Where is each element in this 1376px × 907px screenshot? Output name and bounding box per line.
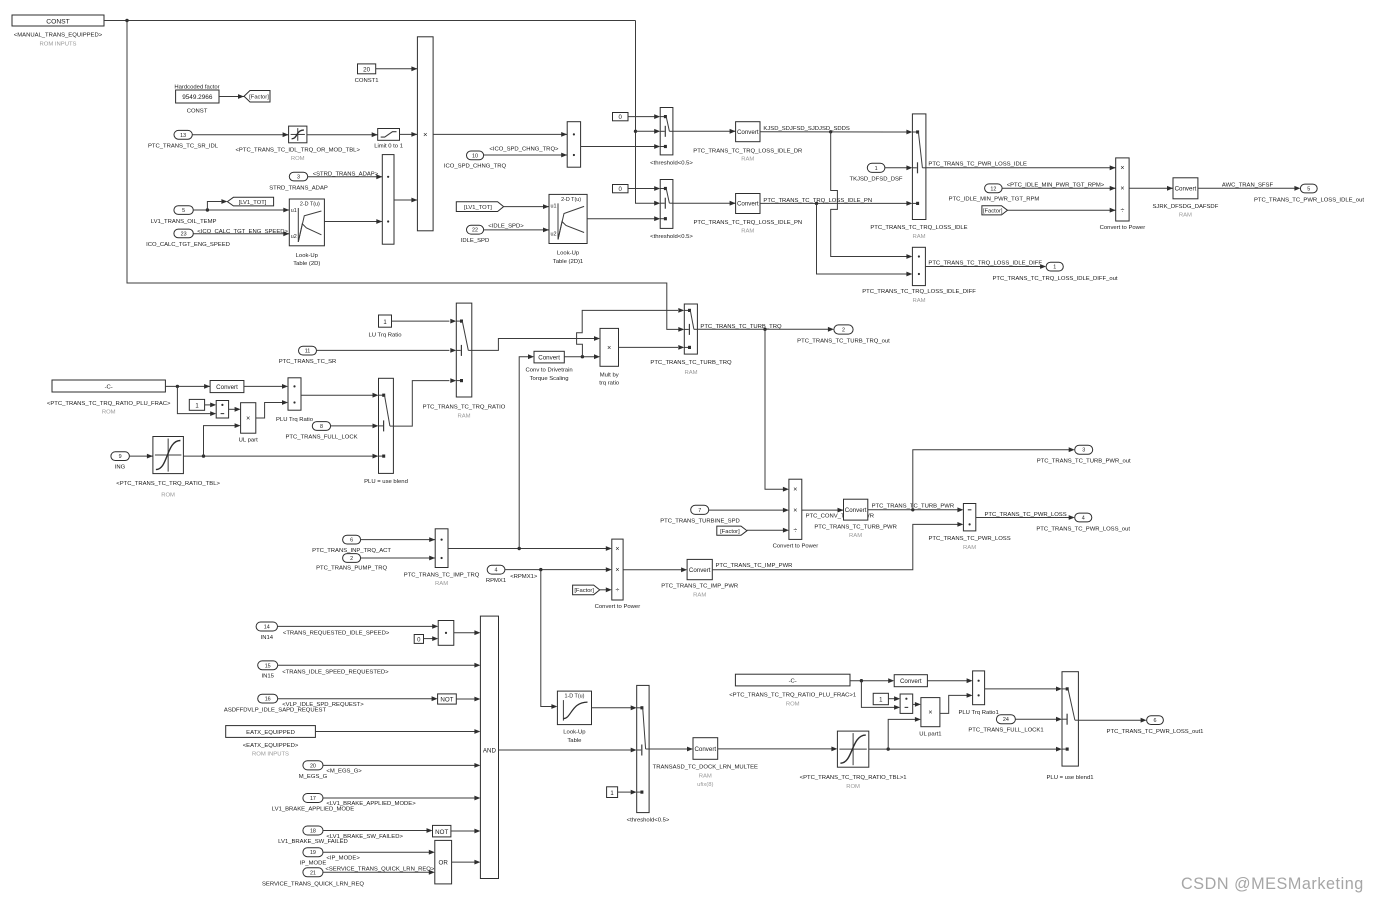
wire ratio table1 to use blend1 switch xyxy=(869,747,1062,752)
svg-text:EATX_EQUIPPED: EATX_EQUIPPED xyxy=(246,730,295,736)
inport 16 ASDFFDVLP_IDLE_SAPD_REQUEST xyxy=(224,694,327,713)
switch block threshold 0.5 (PN) xyxy=(650,180,693,240)
wire const0 to sum xyxy=(424,636,439,641)
outport 3 PTC_TRANS_TC_TURB_PWR_out xyxy=(1037,445,1131,464)
wire label PTC_TRANS_TC_PWR_LOSS xyxy=(985,512,1067,518)
svg-text:UL part1: UL part1 xyxy=(919,731,941,737)
svg-text:PTC_TRANS_TC_IMP_TRQ: PTC_TRANS_TC_IMP_TRQ xyxy=(404,572,480,578)
wire label M_EGS_G xyxy=(326,769,362,775)
svg-text:22: 22 xyxy=(472,228,478,234)
svg-text:<TRANS_IDLE_SPEED_REQUESTED>: <TRANS_IDLE_SPEED_REQUESTED> xyxy=(282,669,389,675)
svg-text:PTC_TRANS_TC_PWR_LOSS_out: PTC_TRANS_TC_PWR_LOSS_out xyxy=(1036,527,1130,533)
svg-text:2: 2 xyxy=(842,328,845,334)
inport 18 LV1_BRAKE_SW_FAILED xyxy=(278,826,348,845)
svg-text:CONST1: CONST1 xyxy=(355,78,379,84)
wire port17 to AND xyxy=(323,796,480,801)
svg-text:3: 3 xyxy=(297,175,300,181)
svg-text:PTC_TRANS_TC_SR_IDL: PTC_TRANS_TC_SR_IDL xyxy=(148,143,219,149)
inport 2 PTC_TRANS_PUMP_TRQ xyxy=(316,554,387,572)
svg-text:21: 21 xyxy=(310,870,316,876)
svg-text:2: 2 xyxy=(350,556,353,562)
lookup block PTC_TRANS_TC_TRQ_RATIO_TBL 1 (ROM) xyxy=(800,731,907,790)
svg-text:RAM: RAM xyxy=(435,581,448,587)
wire label LV1_BRAKE_SW_FAILED xyxy=(326,834,403,840)
svg-text:9549.2966: 9549.2966 xyxy=(182,94,213,101)
wire Factor to Convert-to-Power turb xyxy=(747,528,789,533)
from tag LV1_TOT xyxy=(456,202,503,212)
svg-text:RPMX1: RPMX1 xyxy=(486,578,506,584)
wire NOT brake to AND xyxy=(451,829,481,834)
wire label PTC_IDLE_MIN_PWR_TGT_RPM xyxy=(1007,182,1105,188)
wire PLU Trq Ratio to use blend switch xyxy=(301,393,379,398)
wire port12 to Convert-to-Power xyxy=(1002,186,1116,191)
svg-text:ASDFFDVLP_IDLE_SAPD_REQUEST: ASDFFDVLP_IDLE_SAPD_REQUEST xyxy=(224,707,327,713)
wire Factor to Convert-to-Power xyxy=(1008,208,1116,213)
svg-text:SJRK_DFSDG_DAFSDF: SJRK_DFSDG_DAFSDF xyxy=(1153,204,1219,210)
svg-text:PTC_TRANS_TC_TURB_TRQ: PTC_TRANS_TC_TURB_TRQ xyxy=(650,360,732,366)
svg-text:1: 1 xyxy=(1053,265,1056,271)
svg-text:3: 3 xyxy=(1082,448,1085,454)
wire Convert TURB_PWR to PWR_LOSS sum xyxy=(868,507,964,512)
svg-text:1-D T(u): 1-D T(u) xyxy=(564,694,584,700)
constant block 1 (one-minus 1) xyxy=(873,693,888,704)
outport 1 PTC_TRANS_TC_TRQ_LOSS_IDLE_DIFF_out xyxy=(992,262,1117,282)
svg-text:Table (2D)1: Table (2D)1 xyxy=(553,259,583,265)
logic block NOT (brake) xyxy=(433,825,451,837)
inport 21 SERVICE_TRANS_QUICK_LRN_REQ xyxy=(262,868,364,888)
wire 2D lookup1 to switch2 xyxy=(587,216,660,221)
svg-text:PTC_TRANS_TC_TRQ_LOSS_IDLE_DR: PTC_TRANS_TC_TRQ_LOSS_IDLE_DR xyxy=(693,148,802,154)
convert block (PLU frac) xyxy=(210,381,244,393)
switch block PTC_TRANS_TC_TRQ_LOSS_IDLE (RAM) xyxy=(870,114,967,240)
inport 17 LV1_BRAKE_APPLIED_MODE xyxy=(272,794,354,813)
svg-text:PTC_TRANS_INP_TRQ_ACT: PTC_TRANS_INP_TRQ_ACT xyxy=(312,548,391,554)
wire branch up to TURB_TRQ switch (with hop) xyxy=(577,308,685,357)
wire RPMX1 branch down to 1D lookup xyxy=(541,570,558,709)
svg-text:÷: ÷ xyxy=(793,528,797,535)
wire port24 to use blend1 switch xyxy=(1015,717,1062,722)
wire branch up to Conv to Drivetrain xyxy=(519,354,534,548)
svg-text:RAM: RAM xyxy=(912,298,925,304)
switch block PTC_TRANS_TC_TURB_TRQ (RAM) xyxy=(650,304,732,376)
svg-text:LV1_BRAKE_APPLIED_MODE: LV1_BRAKE_APPLIED_MODE xyxy=(272,807,354,813)
svg-text:PTC_TRANS_TC_TRQ_LOSS_IDLE_PN: PTC_TRANS_TC_TRQ_LOSS_IDLE_PN xyxy=(693,220,802,226)
inport 20 M_EGS_G xyxy=(299,761,328,780)
switch block PLU = use blend xyxy=(364,378,408,485)
inport 3 STRD_TRANS_ADAP xyxy=(269,172,328,191)
svg-text:PLU Trq Ratio: PLU Trq Ratio xyxy=(276,417,314,423)
svg-text:12: 12 xyxy=(990,186,996,192)
sum block PLU Trq Ratio xyxy=(276,378,314,423)
svg-text:TKJSD_DFSD_DSF: TKJSD_DFSD_DSF xyxy=(849,176,902,182)
svg-text:Convert to Power: Convert to Power xyxy=(595,604,641,610)
product block Convert to Power (imp) xyxy=(595,539,641,610)
product block Convert to Power (turb) xyxy=(773,479,819,549)
wire port1 to big switch xyxy=(885,165,913,170)
svg-text:[Factor]: [Factor] xyxy=(720,529,740,535)
svg-text:RAM: RAM xyxy=(699,773,712,779)
svg-text:ICO_SPD_CHNG_TRQ: ICO_SPD_CHNG_TRQ xyxy=(444,163,507,169)
svg-text:23: 23 xyxy=(181,231,187,237)
convert block Conv to Drivetrain Torque Scaling xyxy=(526,351,573,382)
wire PLU Trq Ratio1 to use blend1 switch xyxy=(985,687,1062,692)
svg-text:[LV1_TOT]: [LV1_TOT] xyxy=(464,205,492,211)
wire label PTC_TRANS_TC_TRQ_LOSS_IDLE_DIFF xyxy=(928,260,1042,266)
sum block PTC_TRANS_TC_IMP_TRQ (RAM) xyxy=(404,529,480,587)
wire Convert1 to PLU Trq Ratio1 xyxy=(927,678,972,683)
label Hardcoded factor xyxy=(174,85,219,91)
wire port5 to 2D lookup u1 xyxy=(193,208,289,213)
goto tag Factor xyxy=(244,91,270,103)
outport 2 PTC_TRANS_TC_TURB_TRQ_out xyxy=(797,325,890,345)
wire -C- branch down to one-minus sum xyxy=(177,386,216,416)
svg-text:6: 6 xyxy=(350,538,353,544)
wire port14 to sum xyxy=(278,624,439,629)
wire TRQ_RATIO switch to mult xyxy=(472,336,600,350)
svg-text:<SERVICE_TRANS_QUICK_LRN_REQ>: <SERVICE_TRANS_QUICK_LRN_REQ> xyxy=(325,866,434,872)
svg-text:IDLE_SPD: IDLE_SPD xyxy=(461,238,489,244)
wire port22 to 2D lookup1 u2 xyxy=(484,228,549,233)
svg-text:<RPMX1>: <RPMX1> xyxy=(510,574,538,580)
wire TRANSASD to ratio table1 xyxy=(718,747,838,752)
wire TURB_TRQ to outport 2 xyxy=(697,327,834,332)
wire sum to product xyxy=(394,198,417,203)
wire Limit to product xyxy=(400,132,418,137)
wire port3 to sum xyxy=(308,174,383,179)
svg-text:-C-: -C- xyxy=(789,679,797,685)
wire branch up to outport 3 xyxy=(913,447,1075,510)
wire -C-1 to Convert1 xyxy=(850,678,894,683)
switch block threshold 0.5 (DR) xyxy=(650,108,693,167)
wire port13 to ROM table xyxy=(192,132,288,137)
svg-text:IN15: IN15 xyxy=(261,674,274,680)
wire const1 to one-minus sum xyxy=(205,403,217,408)
svg-text:PTC_TRANS_FULL_LOCK: PTC_TRANS_FULL_LOCK xyxy=(285,434,357,440)
svg-text:×: × xyxy=(615,567,619,574)
wire Convert-to-Power imp to Convert RAM xyxy=(623,567,687,572)
svg-text:IN14: IN14 xyxy=(261,635,274,641)
wire port4 to Convert-to-Power (imp) xyxy=(505,567,612,572)
svg-text:ROM: ROM xyxy=(291,156,305,162)
from tag Factor (turb) xyxy=(717,526,747,535)
svg-text:PTC_TRANS_TC_TRQ_LOSS_IDLE_DIF: PTC_TRANS_TC_TRQ_LOSS_IDLE_DIFF xyxy=(928,260,1042,266)
wire switch2 to Convert PN xyxy=(673,201,736,206)
wire threshold switch to TRANSASD convert xyxy=(649,747,693,752)
svg-text:ROM: ROM xyxy=(161,493,175,499)
wire CONST branch down left side to TURB_TRQ switch control xyxy=(127,21,684,332)
svg-text:<VLP_IDLE_SPD_REQUEST>: <VLP_IDLE_SPD_REQUEST> xyxy=(282,702,364,708)
wire label STRD_TRANS_ADAP xyxy=(313,171,379,177)
outport 5 PTC_TRANS_TC_PWR_LOSS_IDLE_out xyxy=(1254,184,1364,204)
wire label PTC_TRANS_TC_TURB_PWR xyxy=(872,503,954,509)
wire port19 to OR xyxy=(323,850,435,855)
svg-text:PLU Trq Ratio1: PLU Trq Ratio1 xyxy=(958,710,998,716)
svg-text:<MANUAL_TRANS_EQUIPPED>: <MANUAL_TRANS_EQUIPPED> xyxy=(14,33,103,39)
wire ratio table to PLU use blend switch xyxy=(183,454,378,459)
inport 10 ICO_SPD_CHNG_TRQ xyxy=(444,151,507,169)
svg-text:24: 24 xyxy=(1003,717,1009,723)
svg-text:PTC_TRANS_TC_TRQ_LOSS_IDLE_DIF: PTC_TRANS_TC_TRQ_LOSS_IDLE_DIFF xyxy=(862,289,976,295)
svg-text:6: 6 xyxy=(1154,718,1157,724)
svg-text:PTC_TRANS_FULL_LOCK1: PTC_TRANS_FULL_LOCK1 xyxy=(968,728,1043,734)
goto tag LV1_TOT xyxy=(227,197,273,206)
wire CONST output across top xyxy=(104,19,636,22)
svg-text:SERVICE_TRANS_QUICK_LRN_REQ: SERVICE_TRANS_QUICK_LRN_REQ xyxy=(262,881,364,887)
svg-text:2-D T(u): 2-D T(u) xyxy=(561,197,581,203)
svg-text:13: 13 xyxy=(180,133,186,139)
inport 19 IP_MODE xyxy=(300,848,327,867)
svg-text:14: 14 xyxy=(264,625,270,631)
svg-text:PTC_TRANS_TC_TURB_PWR_out: PTC_TRANS_TC_TURB_PWR_out xyxy=(1037,459,1131,465)
wire branch up to UL part xyxy=(204,423,241,456)
svg-text:4: 4 xyxy=(1082,516,1085,522)
svg-text:Table (2D): Table (2D) xyxy=(293,261,320,267)
wire PN branch down to DIFF sum xyxy=(817,203,913,276)
constant block 9549.2966 xyxy=(176,90,219,103)
wire label IP_MODE xyxy=(326,856,360,862)
wire port10 to ICO sum xyxy=(484,153,568,158)
inport 14 IN14 xyxy=(256,622,277,641)
svg-text:20: 20 xyxy=(363,66,370,73)
inport 11 PTC_TRANS_TC_SR xyxy=(279,346,337,365)
wire port6 to IMP_TRQ sum xyxy=(361,537,436,542)
svg-text:PTC_TRANS_TC_PWR_LOSS_out1: PTC_TRANS_TC_PWR_LOSS_out1 xyxy=(1107,729,1204,735)
product block Convert to Power (idle) xyxy=(1100,158,1146,231)
saturation block Limit 0 to 1 xyxy=(374,129,403,150)
svg-text:<ICO_SPD_CHNG_TRQ>: <ICO_SPD_CHNG_TRQ> xyxy=(489,147,559,153)
svg-text:10: 10 xyxy=(472,153,478,159)
svg-text:<PTC_TRANS_TC_IDL_TRQ_OR_MOD_T: <PTC_TRANS_TC_IDL_TRQ_OR_MOD_TBL> xyxy=(235,148,360,154)
svg-text:ICO_CALC_TGT_ENG_SPEED: ICO_CALC_TGT_ENG_SPEED xyxy=(146,242,230,248)
svg-text:NOT: NOT xyxy=(440,697,453,704)
convert block PTC_TRANS_TC_IMP_PWR (RAM) xyxy=(661,559,738,598)
svg-text:UL part: UL part xyxy=(239,438,258,444)
constant block 0 (second) xyxy=(613,185,629,194)
lookup block 1-D Look-Up Table xyxy=(557,691,591,744)
wire SJRK to outport 5 xyxy=(1198,186,1301,191)
constant block 0 (IN14) xyxy=(414,635,423,644)
svg-text:PTC_TRANS_TC_PWR_LOSS: PTC_TRANS_TC_PWR_LOSS xyxy=(985,512,1067,518)
wire -C- to Convert xyxy=(165,384,210,389)
svg-text:RAM: RAM xyxy=(912,234,925,240)
svg-text:RAM: RAM xyxy=(741,157,754,163)
svg-text:<EATX_EQUIPPED>: <EATX_EQUIPPED> xyxy=(243,743,299,749)
wire port20 to AND xyxy=(323,763,480,768)
wire label PTC_TRANS_TC_IMP_PWR xyxy=(716,563,793,569)
wire Conv to Drivetrain output to mult xyxy=(564,354,600,359)
svg-text:15: 15 xyxy=(265,663,271,669)
logic block AND xyxy=(480,616,498,878)
wire const0 to switch1 xyxy=(628,114,660,119)
wire branch to LV1_TOT goto xyxy=(207,199,227,210)
wire label PTC_CONV_TURB_PWR xyxy=(806,513,874,519)
sum block ICO xyxy=(567,122,580,168)
svg-text:PTC_TRANS_TC_TRQ_LOSS_IDLE: PTC_TRANS_TC_TRQ_LOSS_IDLE xyxy=(870,225,967,231)
svg-text:PTC_TRANS_TC_PWR_LOSS_IDLE_out: PTC_TRANS_TC_PWR_LOSS_IDLE_out xyxy=(1254,198,1364,204)
wire label ICO_CALC_TGT_ENG_SPEED xyxy=(197,229,288,235)
convert block PTC_TRANS_TC_TRQ_LOSS_IDLE_DR (RAM) xyxy=(693,122,802,163)
svg-text:PTC_TRANS_TC_TRQ_LOSS_IDLE_DIF: PTC_TRANS_TC_TRQ_LOSS_IDLE_DIFF_out xyxy=(992,276,1117,282)
svg-text:÷: ÷ xyxy=(616,587,620,594)
wire mult to TURB_TRQ switch xyxy=(619,345,685,350)
svg-text:RAM: RAM xyxy=(684,370,697,376)
wire Convert DR to big switch xyxy=(760,130,912,135)
svg-text:5: 5 xyxy=(182,208,185,214)
svg-text:PTC_TRANS_PUMP_TRQ: PTC_TRANS_PUMP_TRQ xyxy=(316,566,387,572)
wire OR to AND xyxy=(452,860,481,865)
wire label LV1_BRAKE_APPLIED_MODE xyxy=(326,801,416,807)
svg-text:trq ratio: trq ratio xyxy=(599,381,620,387)
from tag Factor (imp) xyxy=(573,585,600,595)
from tag Factor (idle) xyxy=(982,206,1008,215)
svg-text:÷: ÷ xyxy=(1120,208,1124,215)
inport 12 PTC_IDLE_MIN_PWR_TGT_RPM xyxy=(949,184,1040,203)
svg-text:u2: u2 xyxy=(551,232,557,238)
inport 4 RPMX1 xyxy=(486,565,506,584)
svg-text:PTC_TRANS_TC_TRQ_RATIO: PTC_TRANS_TC_TRQ_RATIO xyxy=(423,404,506,410)
svg-text:PTC_TRANS_TC_IMP_PWR: PTC_TRANS_TC_IMP_PWR xyxy=(661,584,738,590)
svg-text:Convert: Convert xyxy=(737,201,759,208)
inport 6 PTC_TRANS_INP_TRQ_ACT xyxy=(312,535,391,554)
svg-text:20: 20 xyxy=(310,763,316,769)
svg-text:ROM INPUTS: ROM INPUTS xyxy=(40,42,77,48)
svg-text:8: 8 xyxy=(320,424,323,430)
wire const1 to one-minus sum1 xyxy=(888,696,900,701)
wire port18 to NOT xyxy=(323,828,433,833)
svg-text:RAM: RAM xyxy=(457,413,470,419)
wire port8 to use blend switch xyxy=(331,424,379,429)
svg-text:ING: ING xyxy=(115,465,126,471)
svg-text:1: 1 xyxy=(875,166,878,172)
outport 4 PTC_TRANS_TC_PWR_LOSS_out xyxy=(1036,513,1130,533)
svg-text:PTC_TRANS_TC_PWR_LOSS: PTC_TRANS_TC_PWR_LOSS xyxy=(929,536,1011,542)
constant block 1 (one-minus) xyxy=(189,399,204,410)
product block UL part1 xyxy=(919,698,941,738)
svg-text:[Factor]: [Factor] xyxy=(574,588,594,594)
svg-text:u1: u1 xyxy=(291,208,297,214)
svg-text:×: × xyxy=(423,130,427,139)
svg-text:RAM: RAM xyxy=(849,533,862,539)
wire label KJSD_SDJFSD_SJDJSD_SDDS xyxy=(763,126,849,132)
svg-text:IP_MODE: IP_MODE xyxy=(300,861,327,867)
svg-text:ufix(8): ufix(8) xyxy=(697,782,713,788)
constant block CONST (MANUAL_TRANS_EQUIPPED) xyxy=(12,15,104,26)
product block (x) tall xyxy=(417,37,433,231)
convert block TRANSASD_TC_DOCK_LRN_MULTEE (RAM ufix8) xyxy=(653,738,758,789)
svg-text:PTC_IDLE_MIN_PWR_TGT_RPM: PTC_IDLE_MIN_PWR_TGT_RPM xyxy=(949,197,1040,203)
svg-text:Limit 0 to 1: Limit 0 to 1 xyxy=(374,144,403,150)
inport 15 IN15 xyxy=(258,661,278,680)
wire port2 to IMP_TRQ sum xyxy=(361,556,436,561)
inport 23 ICO_CALC_TGT_ENG_SPEED xyxy=(146,229,230,248)
svg-text:PTC_TRANS_TURBINE_SPD: PTC_TRANS_TURBINE_SPD xyxy=(660,518,740,524)
wire const0 to switch2 xyxy=(628,186,660,191)
wire label TRANS_IDLE_SPEED_REQUESTED xyxy=(282,669,389,675)
svg-text:11: 11 xyxy=(305,349,311,355)
svg-text:<threshold<0.5>: <threshold<0.5> xyxy=(627,817,670,823)
svg-text:<PTC_TRANS_TC_TRQ_RATIO_TBL>1: <PTC_TRANS_TC_TRQ_RATIO_TBL>1 xyxy=(800,775,907,781)
svg-text:×: × xyxy=(615,546,619,553)
svg-text:<PTC_TRANS_TC_TRQ_RATIO_PLU_FR: <PTC_TRANS_TC_TRQ_RATIO_PLU_FRAC> xyxy=(47,401,171,407)
inport 9 ING xyxy=(111,452,129,471)
wire port7 to Convert-to-Power turb xyxy=(709,508,789,513)
wire branch up to UL part1 xyxy=(888,717,921,749)
svg-text:CONST: CONST xyxy=(46,19,69,26)
svg-text:PTC_TRANS_TC_TURB_PWR: PTC_TRANS_TC_TURB_PWR xyxy=(814,525,896,531)
wire Convert-to-Power to SJRK convert xyxy=(1129,186,1173,191)
wire EATX to AND xyxy=(315,729,480,734)
svg-text:<IP_MODE>: <IP_MODE> xyxy=(326,856,360,862)
svg-text:×: × xyxy=(607,345,611,352)
wire LV1_TOT to 2D lookup1 u1 xyxy=(504,204,549,209)
svg-text:Convert: Convert xyxy=(694,746,716,753)
svg-text:u2: u2 xyxy=(291,234,297,240)
svg-text:PTC_TRANS_TC_PWR_LOSS_IDLE: PTC_TRANS_TC_PWR_LOSS_IDLE xyxy=(928,161,1027,167)
svg-text:-C-: -C- xyxy=(105,385,113,391)
sum block one-minus (UL) xyxy=(216,401,228,419)
svg-text:[Factor]: [Factor] xyxy=(983,209,1003,215)
svg-text:<threshold<0.5>: <threshold<0.5> xyxy=(650,161,693,167)
svg-text:2-D T(u): 2-D T(u) xyxy=(300,202,320,208)
wire Convert to PLU Trq Ratio sum xyxy=(244,384,288,389)
wire port21 to OR xyxy=(323,870,435,875)
svg-text:u1: u1 xyxy=(551,203,557,209)
convert block (PLU frac 1) xyxy=(894,675,927,687)
svg-text:Convert: Convert xyxy=(737,129,759,136)
wire Convert PN to big switch xyxy=(760,201,912,206)
wire port15 to AND xyxy=(278,663,481,668)
svg-text:ROM: ROM xyxy=(102,409,116,415)
wire CONST1 to product xyxy=(376,66,418,71)
inport 22 IDLE_SPD xyxy=(461,225,489,244)
convert block PTC_TRANS_TC_TRQ_LOSS_IDLE_PN (RAM) xyxy=(693,194,802,235)
wire NOT to AND xyxy=(456,697,480,702)
svg-text:<LV1_BRAKE_APPLIED_MODE>: <LV1_BRAKE_APPLIED_MODE> xyxy=(326,801,416,807)
wire AND to threshold switch xyxy=(499,748,637,753)
svg-text:Torque Scaling: Torque Scaling xyxy=(530,376,569,382)
svg-text:16: 16 xyxy=(265,697,271,703)
svg-text:[LV1_TOT]: [LV1_TOT] xyxy=(239,200,267,206)
watermark CSDN @MESMarketing xyxy=(1181,875,1364,893)
inport 13 PTC_TRANS_TC_SR_IDL xyxy=(148,130,219,149)
svg-text:AWC_TRAN_SFSF: AWC_TRAN_SFSF xyxy=(1222,182,1274,188)
constant block CONST1 (20) xyxy=(355,64,379,84)
wire label PTC_TRANS_TC_TURB_TRQ xyxy=(700,324,782,330)
svg-text:ROM: ROM xyxy=(786,701,800,707)
inport 24 PTC_TRANS_FULL_LOCK1 xyxy=(968,715,1043,734)
svg-text:Convert: Convert xyxy=(845,507,867,514)
constant block 1 (threshold) xyxy=(607,787,618,798)
constant block EATX_EQUIPPED xyxy=(226,726,316,758)
svg-text:Mult by: Mult by xyxy=(600,373,619,379)
logic block OR xyxy=(435,840,452,884)
constant block 0 (first) xyxy=(613,113,629,122)
wire DIFF sum to outport 1 xyxy=(925,264,1046,269)
wire CONST vertical to threshold switches control xyxy=(634,21,660,206)
svg-text:17: 17 xyxy=(310,796,316,802)
wire label IDLE_SPD xyxy=(488,224,524,230)
wire switch1 to Convert DR xyxy=(673,129,736,134)
svg-text:×: × xyxy=(246,416,250,423)
svg-text:<TRANS_REQUESTED_IDLE_SPEED>: <TRANS_REQUESTED_IDLE_SPEED> xyxy=(283,630,390,636)
svg-text:LV1_TRANS_OIL_TEMP: LV1_TRANS_OIL_TEMP xyxy=(151,219,217,225)
svg-text:ROM: ROM xyxy=(846,784,860,790)
svg-text:<PTC_TRANS_TC_TRQ_RATIO_TBL>: <PTC_TRANS_TC_TRQ_RATIO_TBL> xyxy=(116,481,220,487)
svg-text:7: 7 xyxy=(698,508,701,514)
wire const1 to threshold switch xyxy=(618,790,637,795)
wire label AWC_TRAN_SFSF xyxy=(1222,182,1274,188)
inport 5 LV1_TRANS_OIL_TEMP xyxy=(151,206,217,225)
